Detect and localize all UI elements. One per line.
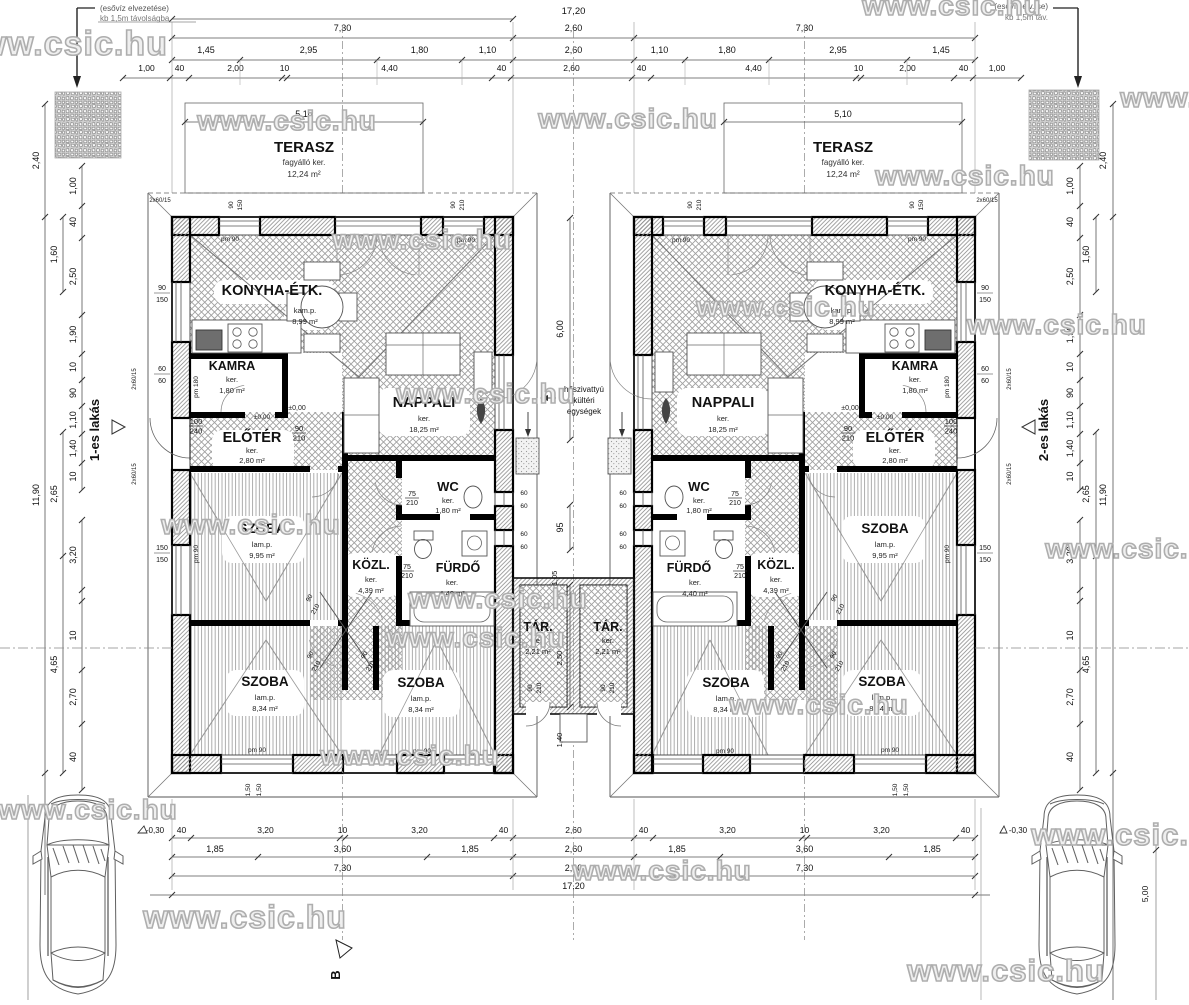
entry door right — [957, 418, 997, 458]
svg-text:ker.: ker. — [717, 414, 729, 423]
middle doors cross hatch left — [310, 626, 402, 700]
kamra door arc right — [903, 385, 926, 412]
svg-text:40: 40 — [639, 825, 649, 835]
svg-text:12,24 m²: 12,24 m² — [826, 169, 860, 179]
svg-text:10: 10 — [68, 471, 78, 481]
svg-text:60: 60 — [520, 490, 528, 497]
svg-text:240: 240 — [190, 427, 203, 436]
dimension row 1,45...(top) — [172, 59, 975, 61]
svg-text:±0,00: ±0,00 — [841, 405, 859, 412]
svg-text:150: 150 — [156, 557, 168, 564]
svg-text:www.csic.hu: www.csic.hu — [1119, 82, 1189, 113]
svg-text:1,80 m²: 1,80 m² — [686, 506, 712, 515]
wc toilet right — [665, 486, 683, 508]
heat pump unit left — [516, 438, 539, 474]
svg-text:1,50: 1,50 — [256, 783, 263, 796]
svg-text:1-es lakás: 1-es lakás — [87, 399, 102, 461]
svg-text:10: 10 — [854, 63, 864, 73]
svg-text:3,20: 3,20 — [411, 825, 428, 835]
central TAR block walls — [513, 578, 634, 714]
svg-text:www.csic.hu: www.csic.hu — [861, 0, 1042, 21]
svg-text:60: 60 — [520, 544, 528, 551]
svg-text:2,95: 2,95 — [829, 45, 847, 55]
svg-text:60: 60 — [619, 490, 627, 497]
svg-text:150: 150 — [156, 297, 168, 304]
svg-text:1,40: 1,40 — [68, 440, 78, 458]
TAR center stub — [560, 714, 587, 742]
svg-text:210: 210 — [729, 500, 741, 507]
svg-text:150: 150 — [979, 297, 991, 304]
left margin vertical — [27, 795, 29, 1000]
svg-text:FÜRDŐ: FÜRDŐ — [667, 560, 712, 575]
svg-text:pm 90: pm 90 — [944, 545, 951, 563]
svg-text:±0,00: ±0,00 — [877, 414, 894, 421]
svg-text:2x60/15: 2x60/15 — [1007, 463, 1013, 485]
kitchen counter right — [846, 320, 955, 353]
svg-text:210: 210 — [609, 682, 616, 693]
svg-text:4,39 m²: 4,39 m² — [763, 586, 789, 595]
axis line left house — [342, 25, 344, 193]
svg-text:ker.: ker. — [693, 496, 705, 505]
top wall windows right — [887, 220, 928, 222]
svg-text:www.csic.hu: www.csic.hu — [728, 689, 909, 720]
svg-text:pm 90: pm 90 — [672, 237, 690, 244]
svg-text:2,40: 2,40 — [31, 152, 41, 170]
svg-text:1,85: 1,85 — [461, 844, 479, 854]
svg-text:40: 40 — [68, 217, 78, 227]
left chain B — [62, 217, 64, 292]
svg-text:40: 40 — [961, 825, 971, 835]
szoba2 ceiling lines left — [190, 640, 266, 755]
svg-text:www.csic.hu: www.csic.hu — [385, 622, 566, 653]
svg-text:11,90: 11,90 — [1098, 484, 1108, 506]
terrace door arc right — [610, 361, 652, 399]
kitchen-dining cross hatch right — [799, 235, 957, 353]
svg-text:ELŐTÉR: ELŐTÉR — [866, 428, 925, 446]
svg-text:210: 210 — [459, 199, 466, 210]
svg-text:75: 75 — [736, 564, 744, 571]
plant left — [477, 398, 485, 424]
svg-text:ker.: ker. — [770, 575, 782, 584]
svg-text:2,70: 2,70 — [1065, 688, 1075, 706]
svg-text:150: 150 — [156, 545, 168, 552]
svg-text:2,80 m²: 2,80 m² — [882, 456, 908, 465]
svg-text:2,21 m²: 2,21 m² — [595, 647, 621, 656]
label clearings left — [214, 280, 334, 304]
svg-text:1,80 m²: 1,80 m² — [435, 506, 461, 515]
svg-text:www.csic.hu: www.csic.hu — [695, 291, 876, 322]
kozl cross hatch left — [342, 461, 402, 632]
svg-text:ker.: ker. — [909, 375, 921, 384]
szoba1 vertical hatch left — [190, 473, 342, 620]
svg-text:2x60/15: 2x60/15 — [132, 368, 138, 390]
svg-text:lam.p.: lam.p. — [255, 693, 275, 702]
svg-text:40: 40 — [1065, 752, 1075, 762]
bottom wall piers right — [926, 755, 975, 773]
svg-text:ker.: ker. — [442, 496, 454, 505]
cabinet eloter right — [768, 378, 803, 453]
bottom wall windows left — [221, 758, 293, 760]
szoba bottom walls left — [190, 620, 310, 626]
svg-text:1,60: 1,60 — [1081, 246, 1091, 264]
svg-text:40: 40 — [497, 63, 507, 73]
svg-text:2x60/15: 2x60/15 — [149, 198, 171, 204]
bedroom partition walls left — [342, 626, 348, 690]
bottom row 17,20 — [172, 894, 975, 896]
svg-text:pm 90: pm 90 — [881, 747, 899, 754]
szoba2 vertical hatch right — [805, 626, 957, 755]
svg-text:www.csic.hu: www.csic.hu — [537, 103, 718, 134]
washbasin right — [660, 531, 685, 556]
svg-text:lam.p.: lam.p. — [252, 540, 272, 549]
szoba2 ceiling lines right — [881, 640, 957, 755]
french doors top right — [770, 235, 807, 275]
svg-text:150: 150 — [979, 557, 991, 564]
svg-text:60: 60 — [981, 378, 989, 385]
svg-text:60: 60 — [520, 503, 528, 510]
svg-text:www.csic.hu: www.csic.hu — [906, 953, 1105, 988]
stove left — [228, 324, 262, 352]
svg-text:90: 90 — [450, 201, 457, 209]
svg-text:ELŐTÉR: ELŐTÉR — [223, 428, 282, 446]
wc walls right — [745, 461, 751, 478]
eloter-nappali wall left — [342, 412, 348, 470]
dimension row 17,20 (top) — [172, 18, 513, 20]
bottom wall piers left — [172, 755, 221, 773]
svg-text:90: 90 — [981, 285, 989, 292]
svg-text:4,40 m²: 4,40 m² — [682, 589, 708, 598]
bedroom partition walls right — [799, 626, 805, 690]
svg-text:2x60/15: 2x60/15 — [132, 463, 138, 485]
svg-text:lam.p.: lam.p. — [875, 540, 895, 549]
dining table left — [304, 262, 340, 280]
svg-text:40: 40 — [959, 63, 969, 73]
svg-text:40: 40 — [68, 752, 78, 762]
svg-text:10: 10 — [68, 630, 78, 640]
svg-text:6,00: 6,00 — [555, 320, 565, 338]
svg-text:4,65: 4,65 — [49, 656, 59, 674]
washbasin left — [462, 531, 487, 556]
svg-text:ker.: ker. — [689, 578, 701, 587]
axis line right house — [804, 25, 806, 193]
szoba1 ceiling lines right — [881, 473, 957, 601]
svg-text:2,80 m²: 2,80 m² — [239, 456, 265, 465]
svg-text:1,00: 1,00 — [1065, 177, 1075, 195]
bathtub left — [410, 592, 494, 626]
svg-text:60: 60 — [619, 531, 627, 538]
svg-text:4,40: 4,40 — [381, 63, 398, 73]
svg-text:SZOBA: SZOBA — [858, 674, 906, 689]
svg-text:17,20: 17,20 — [562, 6, 586, 17]
svg-text:40: 40 — [637, 63, 647, 73]
hip lines left — [148, 193, 172, 217]
eloter-nappali wall right — [799, 412, 805, 470]
svg-text:2,65: 2,65 — [49, 485, 59, 503]
svg-text:www.csic.hu: www.csic.hu — [0, 25, 168, 63]
dimension row 7,30 / 2,60 / 7,30 (top) — [172, 37, 975, 39]
svg-text:1,80 m²: 1,80 m² — [902, 386, 928, 395]
szoba1 door arc right — [808, 474, 835, 497]
svg-text:1,00: 1,00 — [989, 63, 1006, 73]
svg-text:150: 150 — [979, 545, 991, 552]
roof valley overlay left — [190, 235, 359, 377]
svg-text:60: 60 — [520, 531, 528, 538]
szoba3 vertical hatch right — [652, 626, 768, 755]
furdo door arc right — [746, 526, 775, 552]
svg-text:40: 40 — [175, 63, 185, 73]
terrace door arc left — [495, 361, 537, 399]
szoba1 top wall right — [837, 466, 957, 472]
svg-text:75: 75 — [408, 491, 416, 498]
svg-text:ker.: ker. — [889, 446, 901, 455]
svg-text:18,25 m²: 18,25 m² — [708, 425, 738, 434]
eaves outline right — [610, 192, 999, 194]
tv cabinet right — [655, 352, 673, 392]
svg-text:95: 95 — [555, 522, 565, 532]
furdo toilet left — [414, 531, 433, 540]
svg-text:60: 60 — [619, 503, 627, 510]
eaves outline left — [148, 192, 537, 194]
svg-text:1,40: 1,40 — [1065, 440, 1075, 458]
terrace outline right — [724, 103, 962, 193]
leader arrow right — [1053, 7, 1078, 9]
svg-text:2,70: 2,70 — [68, 688, 78, 706]
kamra walls right — [859, 353, 957, 359]
svg-text:www.csic.hu: www.csic.hu — [142, 899, 347, 935]
svg-text:www.csic.hu: www.csic.hu — [407, 583, 588, 614]
nappali bottom wall right — [751, 455, 799, 461]
heat pump arrows — [527, 412, 529, 434]
svg-text:KAMRA: KAMRA — [892, 359, 939, 373]
svg-text:75: 75 — [731, 491, 739, 498]
gravel pit left — [55, 92, 121, 158]
svg-text:10: 10 — [1065, 362, 1075, 372]
svg-text:pm 90: pm 90 — [221, 236, 239, 243]
kozl cross hatch right — [745, 461, 805, 632]
svg-text:www.csic.hu: www.csic.hu — [319, 740, 500, 771]
svg-text:pm 180: pm 180 — [193, 376, 200, 398]
dimension row 1,00 / 40 ... (top) — [123, 77, 1021, 79]
left chain A (2,40 / 11,90) — [44, 104, 46, 773]
svg-text:2,40: 2,40 — [1098, 152, 1108, 170]
nappali cross hatch right — [652, 235, 805, 461]
svg-text:4,65: 4,65 — [1081, 656, 1091, 674]
svg-text:90: 90 — [600, 684, 607, 692]
svg-text:90: 90 — [1065, 388, 1075, 398]
bottom row 7,30/2,60/7,30 — [172, 875, 975, 877]
french doors top left — [341, 235, 378, 275]
szoba1 top wall left — [190, 466, 310, 472]
svg-text:8,34 m²: 8,34 m² — [408, 705, 434, 714]
svg-text:1,10: 1,10 — [479, 45, 497, 55]
svg-text:2,00: 2,00 — [899, 63, 916, 73]
wc door arc left — [375, 483, 402, 505]
svg-text:1,00: 1,00 — [68, 177, 78, 195]
szoba1 right wall left — [342, 470, 348, 626]
svg-text:1,85: 1,85 — [206, 844, 224, 854]
tv cabinet left — [474, 352, 492, 392]
svg-text:ker.: ker. — [365, 575, 377, 584]
svg-text:±0,00: ±0,00 — [254, 414, 271, 421]
svg-text:www.csic.hu: www.csic.hu — [571, 855, 752, 886]
left chain C upper — [81, 166, 83, 490]
szoba3 vertical hatch left — [379, 626, 495, 755]
svg-text:40: 40 — [499, 825, 509, 835]
left wall windows left — [175, 282, 177, 342]
svg-text:100: 100 — [945, 417, 958, 426]
leader arrow left — [77, 7, 95, 9]
svg-text:-0,30: -0,30 — [146, 826, 165, 835]
szoba1 ceiling lines left — [190, 473, 266, 601]
svg-text:3,20: 3,20 — [719, 825, 736, 835]
svg-text:90: 90 — [158, 285, 166, 292]
top wall piers left — [172, 217, 219, 235]
svg-text:90: 90 — [687, 201, 694, 209]
svg-text:11,90: 11,90 — [31, 484, 41, 506]
dining table right — [807, 262, 843, 280]
svg-text:WC: WC — [688, 479, 710, 494]
svg-text:±0,00: ±0,00 — [288, 405, 306, 412]
outer wall band outline left — [172, 217, 513, 773]
sofa left — [386, 333, 460, 375]
svg-text:ker.: ker. — [246, 446, 258, 455]
svg-text:1,90: 1,90 — [68, 326, 78, 344]
svg-text:SZOBA: SZOBA — [702, 675, 750, 690]
TAR floor hatch right — [580, 585, 627, 707]
svg-text:4,40: 4,40 — [745, 63, 762, 73]
centre axis horizontal right — [975, 647, 1189, 649]
hip lines right — [975, 193, 999, 217]
svg-text:210: 210 — [536, 682, 543, 693]
section mark B — [336, 940, 352, 958]
wc toilet left — [464, 486, 482, 508]
svg-text:www.csic.hu: www.csic.hu — [1030, 817, 1189, 852]
svg-text:pm 90: pm 90 — [716, 748, 734, 755]
wc door arc right — [745, 483, 772, 505]
small windows right wall right — [633, 492, 635, 506]
svg-text:1,00: 1,00 — [138, 63, 155, 73]
center dim 2,50 — [569, 585, 571, 707]
furdo walls right — [745, 556, 751, 626]
szoba2 vertical hatch left — [190, 626, 342, 755]
left chain C lower — [81, 520, 83, 790]
svg-text:2,50: 2,50 — [1065, 268, 1075, 286]
svg-text:210: 210 — [401, 573, 413, 580]
svg-text:www.csic.hu: www.csic.hu — [196, 105, 377, 136]
furdo toilet right — [714, 531, 733, 540]
svg-text:1,45: 1,45 — [932, 45, 950, 55]
right chain A — [1112, 104, 1114, 773]
svg-text:SZOBA: SZOBA — [397, 675, 445, 690]
bottom wall windows right — [854, 758, 926, 760]
bottom row 40/3,20/10... — [172, 837, 975, 839]
right chain C upper — [1079, 166, 1081, 490]
svg-text:1,80: 1,80 — [718, 45, 736, 55]
svg-text:www.csic.hu: www.csic.hu — [160, 509, 341, 540]
eloter cross hatch left — [190, 412, 348, 470]
svg-text:1,10: 1,10 — [1065, 411, 1075, 429]
svg-text:90: 90 — [295, 424, 303, 433]
terrace door left — [498, 355, 500, 430]
label clearing TAR right — [588, 616, 629, 658]
szoba1 vertical hatch right — [805, 473, 957, 620]
svg-text:(esővíz elvezetése): (esővíz elvezetése) — [100, 4, 169, 13]
nappali cross hatch left — [342, 235, 495, 461]
svg-text:www.csic.hu: www.csic.hu — [1044, 533, 1189, 564]
szoba ceiling overlay left — [190, 473, 266, 601]
kamra walls left — [190, 353, 288, 359]
svg-text:8,34 m²: 8,34 m² — [252, 704, 278, 713]
szoba bottom walls right — [837, 620, 957, 626]
center dim 95 — [569, 505, 571, 550]
svg-text:10: 10 — [280, 63, 290, 73]
middle double door X right — [775, 592, 827, 668]
svg-text:60: 60 — [158, 378, 166, 385]
svg-text:NAPPALI: NAPPALI — [692, 395, 755, 411]
left wall piers left — [172, 217, 190, 282]
svg-text:1,85: 1,85 — [923, 844, 941, 854]
svg-text:2x60/15: 2x60/15 — [976, 198, 998, 204]
svg-text:1,50: 1,50 — [892, 783, 899, 796]
heat pump unit right — [608, 438, 631, 474]
szoba3 ceiling lines right — [710, 640, 768, 755]
svg-text:75: 75 — [403, 564, 411, 571]
furdo walls left — [396, 556, 402, 626]
svg-text:40: 40 — [1065, 217, 1075, 227]
svg-text:TERASZ: TERASZ — [813, 139, 873, 156]
svg-text:kültéri: kültéri — [573, 396, 595, 405]
car right — [1032, 795, 1122, 994]
svg-text:8,99 m²: 8,99 m² — [292, 317, 318, 326]
kitchen-dining cross hatch left — [190, 235, 348, 353]
svg-text:1,10: 1,10 — [68, 411, 78, 429]
svg-text:KÖZL.: KÖZL. — [352, 557, 390, 572]
svg-text:10: 10 — [68, 362, 78, 372]
svg-text:pm 180: pm 180 — [944, 376, 951, 398]
roof valley lines right — [788, 235, 957, 377]
svg-text:FÜRDŐ: FÜRDŐ — [436, 560, 481, 575]
stove right — [885, 324, 919, 352]
svg-text:kam.p.: kam.p. — [294, 306, 317, 315]
top wall windows left — [219, 220, 260, 222]
TAR door gaps — [526, 702, 550, 716]
right chain C lower — [1079, 520, 1081, 790]
outer wall band outline right — [634, 217, 975, 773]
svg-text:1,60: 1,60 — [49, 246, 59, 264]
gravel pit right — [1029, 90, 1099, 160]
kitchen counter left — [192, 320, 301, 353]
middle double door X left — [320, 592, 372, 668]
svg-text:210: 210 — [696, 199, 703, 210]
sofa right — [687, 333, 761, 375]
terrace door right — [637, 355, 639, 430]
svg-text:1,40: 1,40 — [555, 733, 564, 748]
svg-text:1,80 m²: 1,80 m² — [219, 386, 245, 395]
svg-text:ker.: ker. — [602, 636, 614, 645]
cabinet eloter left — [344, 378, 379, 453]
svg-text:www.csic.hu: www.csic.hu — [874, 160, 1055, 191]
svg-text:9,95 m²: 9,95 m² — [249, 551, 275, 560]
label clearing TAR left — [518, 616, 559, 658]
svg-text:2,95: 2,95 — [300, 45, 318, 55]
svg-text:3,20: 3,20 — [873, 825, 890, 835]
bottom row 1,85/3,60... — [172, 856, 975, 858]
middle doors cross hatch right — [745, 626, 837, 700]
svg-text:pm 90: pm 90 — [193, 545, 200, 563]
wc walls left — [396, 461, 402, 478]
svg-text:2x60/15: 2x60/15 — [1007, 368, 1013, 390]
plot edge line right — [980, 808, 982, 1000]
